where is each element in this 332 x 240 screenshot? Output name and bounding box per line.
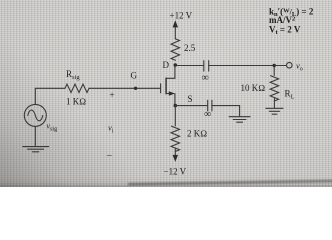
wire [175, 105, 207, 107]
resistor RL 10 kOhm [270, 66, 278, 108]
ground (bypass) [229, 117, 250, 123]
svg-text:2.5: 2.5 [184, 43, 196, 53]
svg-text:10 KΩ: 10 KΩ [241, 83, 266, 93]
ground (signal source) [23, 147, 49, 152]
output terminal vo [287, 62, 293, 68]
svg-text:2 KΩ: 2 KΩ [187, 129, 207, 139]
svg-text:S: S [188, 94, 193, 104]
capacitor C2 infinite [208, 100, 212, 111]
svg-text:G: G [131, 71, 138, 81]
device parameters text [269, 7, 314, 37]
svg-text:vo: vo [296, 61, 303, 73]
-12 V supply arrow [173, 155, 178, 162]
transistor Q1 NMOS [161, 66, 175, 106]
node G [134, 87, 137, 90]
wire [89, 87, 160, 89]
svg-text:+: + [110, 90, 115, 100]
svg-text:+12 V: +12 V [170, 11, 193, 21]
capacitor C1 infinite [204, 61, 209, 71]
svg-text:vsig: vsig [47, 122, 58, 133]
svg-text:vi: vi [108, 123, 114, 135]
ground (RL) [266, 108, 283, 114]
+12 V supply arrow [173, 20, 178, 38]
svg-text:−12 V: −12 V [164, 167, 187, 177]
svg-text:∞: ∞ [204, 109, 211, 120]
node at RL [273, 64, 276, 67]
resistor RS 2 kOhm [171, 106, 179, 156]
svg-text:Vt = 2 V: Vt = 2 V [269, 25, 301, 37]
node D [174, 63, 178, 67]
wire [175, 65, 203, 67]
svg-text:−: − [107, 151, 113, 162]
wire [209, 65, 287, 67]
signal source Vsig [24, 104, 46, 126]
wire [35, 88, 65, 104]
svg-text:1 KΩ: 1 KΩ [66, 97, 86, 107]
node S [174, 104, 178, 108]
svg-text:D: D [163, 60, 170, 70]
resistor Rsig 1 kOhm [65, 84, 89, 92]
svg-text:Rsig: Rsig [66, 69, 80, 81]
svg-text:RL: RL [285, 89, 295, 101]
wire [34, 126, 36, 146]
wire [212, 106, 240, 117]
svg-text:∞: ∞ [202, 73, 209, 84]
resistor RD 2.5 [171, 39, 179, 61]
svg-text:mA/V2: mA/V2 [269, 15, 295, 25]
